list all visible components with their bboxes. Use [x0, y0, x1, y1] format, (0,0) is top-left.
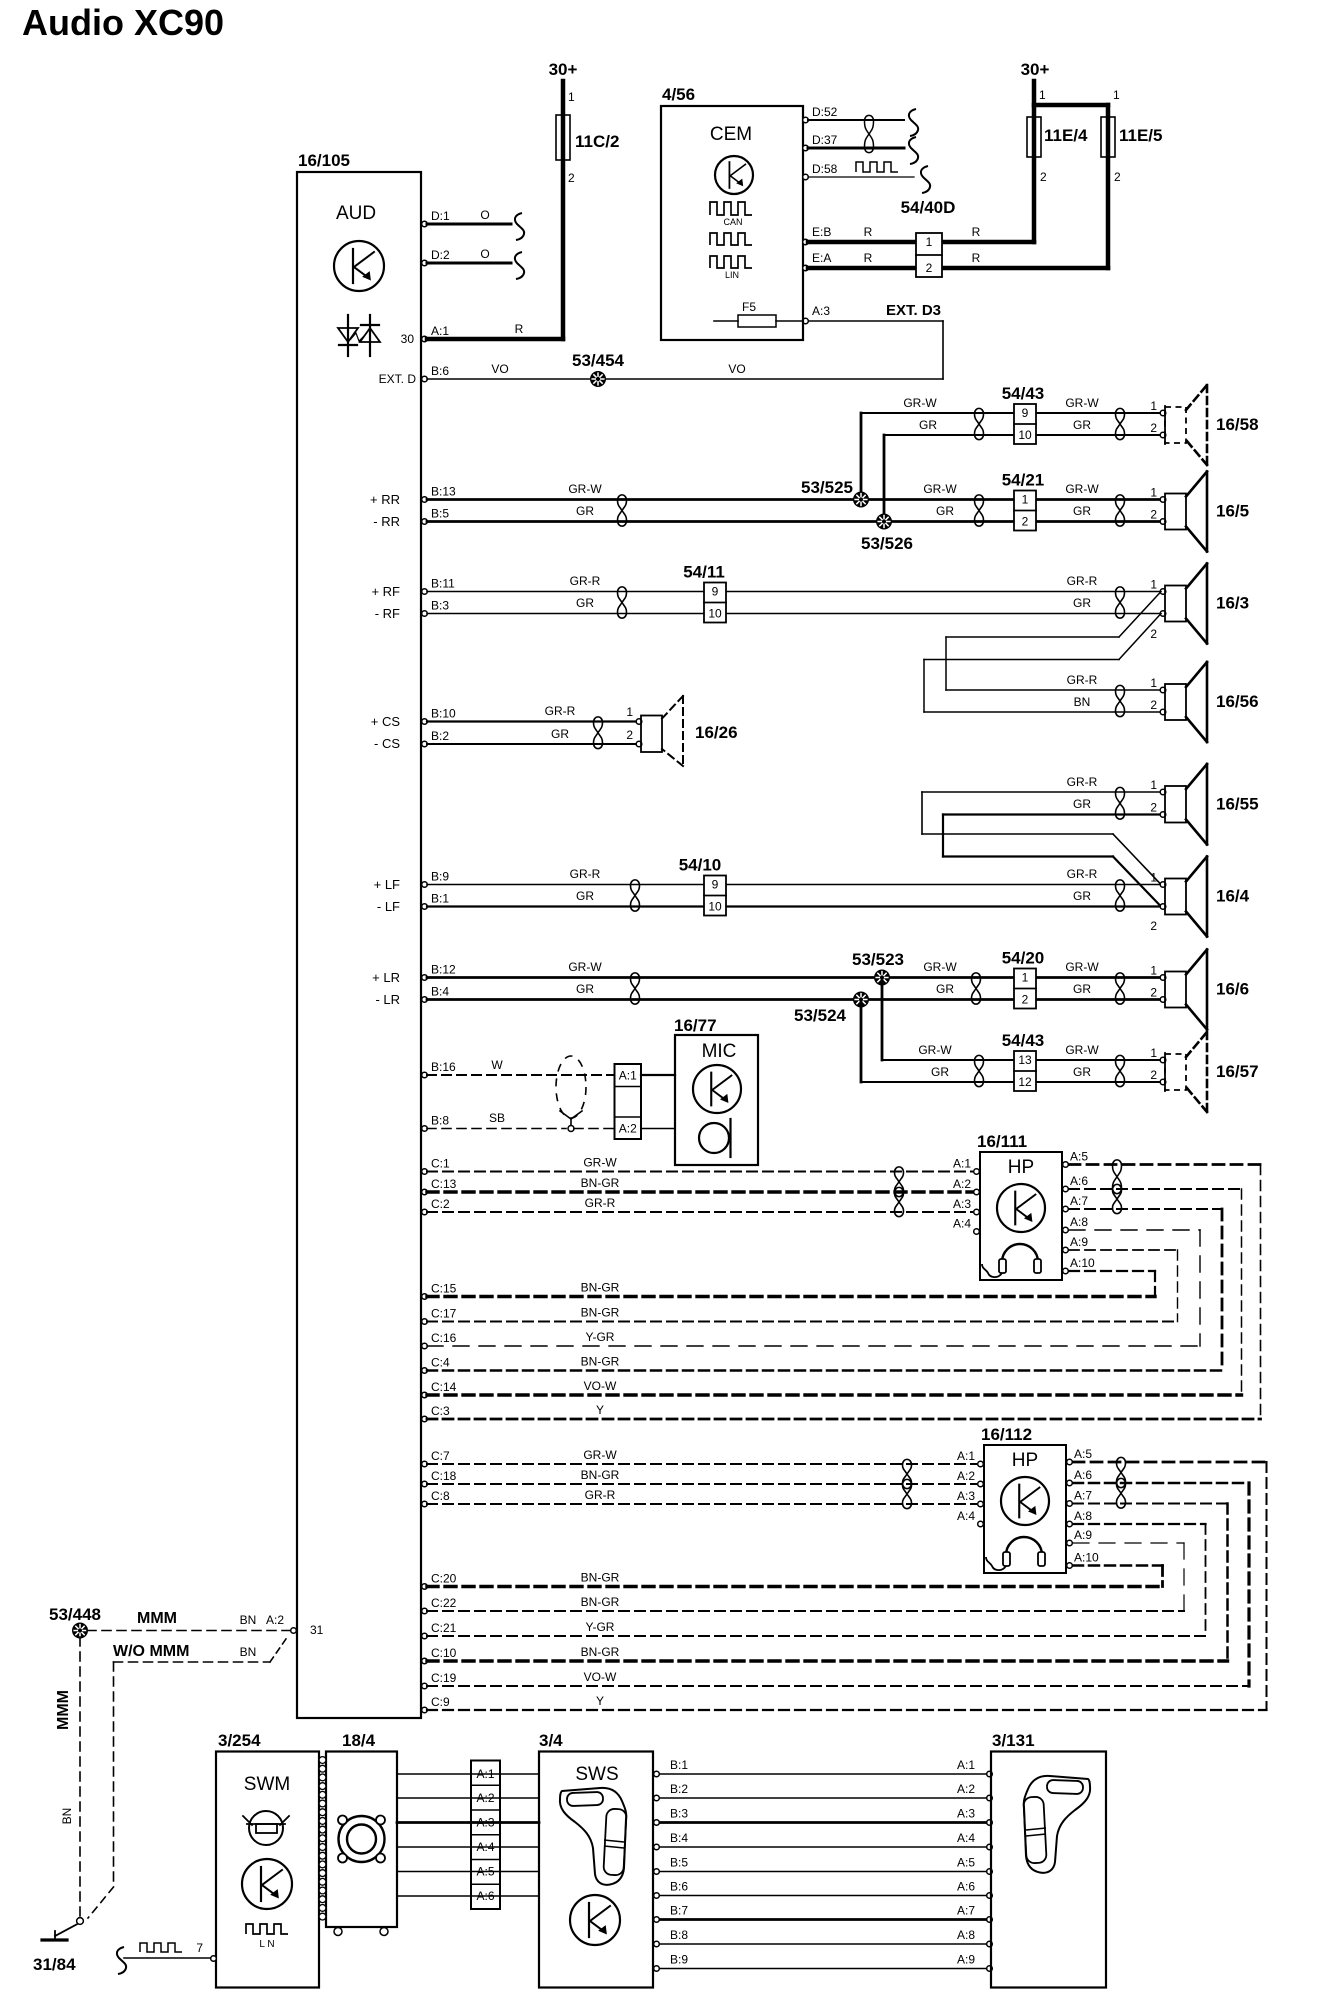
- svg-text:D:1: D:1: [431, 209, 450, 223]
- svg-text:GR-W: GR-W: [583, 1156, 617, 1170]
- svg-text:9: 9: [712, 878, 719, 892]
- svg-text:BN: BN: [60, 1808, 74, 1825]
- svg-text:- LF: - LF: [377, 899, 400, 914]
- svg-text:1: 1: [1022, 493, 1029, 507]
- svg-text:16/57: 16/57: [1216, 1062, 1259, 1081]
- svg-text:1: 1: [1150, 399, 1157, 413]
- svg-text:GR-R: GR-R: [1067, 775, 1098, 789]
- svg-text:B:8: B:8: [670, 1928, 688, 1942]
- svg-text:16/55: 16/55: [1216, 794, 1259, 813]
- svg-text:A:10: A:10: [1070, 1256, 1095, 1270]
- svg-text:B:7: B:7: [670, 1904, 688, 1918]
- svg-text:BN-GR: BN-GR: [581, 1281, 620, 1295]
- svg-text:16/58: 16/58: [1216, 415, 1259, 434]
- svg-text:54/20: 54/20: [1002, 949, 1045, 968]
- svg-text:B:3: B:3: [670, 1807, 688, 1821]
- svg-text:GR: GR: [1073, 982, 1091, 996]
- svg-text:GR: GR: [919, 418, 937, 432]
- svg-text:- RF: - RF: [375, 606, 400, 621]
- svg-text:10: 10: [1018, 428, 1032, 442]
- svg-text:13: 13: [1018, 1053, 1032, 1067]
- svg-text:31: 31: [310, 1623, 324, 1637]
- svg-text:B:3: B:3: [431, 599, 449, 613]
- svg-text:18/4: 18/4: [342, 1731, 376, 1750]
- svg-text:A:4: A:4: [953, 1217, 971, 1231]
- svg-text:C:22: C:22: [431, 1596, 457, 1610]
- svg-text:EXT. D: EXT. D: [379, 372, 417, 386]
- svg-text:16/6: 16/6: [1216, 980, 1249, 999]
- svg-text:B:11: B:11: [431, 577, 455, 591]
- svg-text:R: R: [515, 322, 524, 336]
- svg-text:3/4: 3/4: [539, 1731, 563, 1750]
- svg-text:R: R: [972, 251, 981, 265]
- svg-text:7: 7: [196, 1941, 203, 1955]
- svg-text:2: 2: [1150, 1068, 1157, 1082]
- svg-text:16/3: 16/3: [1216, 594, 1249, 613]
- svg-text:GR: GR: [1073, 797, 1091, 811]
- svg-text:Y: Y: [596, 1403, 604, 1417]
- svg-text:GR-W: GR-W: [568, 960, 602, 974]
- svg-text:12: 12: [1018, 1075, 1032, 1089]
- svg-text:VO-W: VO-W: [584, 1670, 617, 1684]
- svg-text:C:17: C:17: [431, 1307, 457, 1321]
- svg-text:10: 10: [708, 900, 722, 914]
- svg-text:A:8: A:8: [1070, 1215, 1088, 1229]
- svg-text:+ RF: + RF: [371, 584, 400, 599]
- svg-text:D:58: D:58: [812, 162, 838, 176]
- svg-text:54/11: 54/11: [683, 563, 725, 582]
- svg-text:AUD: AUD: [336, 203, 376, 224]
- svg-text:1: 1: [1150, 964, 1157, 978]
- svg-text:GR-R: GR-R: [570, 867, 601, 881]
- svg-text:A:3: A:3: [957, 1489, 975, 1503]
- svg-text:11C/2: 11C/2: [575, 132, 619, 151]
- svg-text:B:9: B:9: [431, 870, 449, 884]
- svg-text:GR: GR: [936, 504, 954, 518]
- svg-text:LIN: LIN: [725, 270, 739, 280]
- svg-text:10: 10: [708, 607, 722, 621]
- svg-text:C:13: C:13: [431, 1177, 457, 1191]
- svg-text:1: 1: [1022, 971, 1029, 985]
- svg-text:A:10: A:10: [1074, 1551, 1099, 1565]
- svg-text:GR: GR: [931, 1065, 949, 1079]
- svg-text:VO-W: VO-W: [584, 1379, 617, 1393]
- svg-text:1: 1: [1150, 1046, 1157, 1060]
- svg-text:BN-GR: BN-GR: [581, 1306, 620, 1320]
- svg-text:BN-GR: BN-GR: [581, 1176, 620, 1190]
- svg-text:16/111: 16/111: [977, 1132, 1027, 1151]
- svg-text:SB: SB: [489, 1111, 505, 1125]
- svg-text:D:52: D:52: [812, 105, 838, 119]
- svg-text:A:6: A:6: [1074, 1468, 1092, 1482]
- svg-text:L N: L N: [259, 1939, 274, 1950]
- svg-text:54/43: 54/43: [1002, 384, 1045, 403]
- svg-text:B:4: B:4: [431, 985, 449, 999]
- svg-text:A:2: A:2: [266, 1613, 284, 1627]
- svg-text:A:8: A:8: [1074, 1509, 1092, 1523]
- svg-text:E:A: E:A: [812, 251, 831, 265]
- svg-text:C:8: C:8: [431, 1489, 450, 1503]
- svg-text:16/26: 16/26: [695, 723, 738, 742]
- svg-text:C:4: C:4: [431, 1356, 450, 1370]
- svg-text:2: 2: [568, 171, 575, 185]
- svg-text:30: 30: [401, 332, 415, 346]
- svg-text:4/56: 4/56: [662, 85, 695, 104]
- svg-text:Y: Y: [596, 1694, 604, 1708]
- svg-text:31/84: 31/84: [33, 1955, 76, 1974]
- svg-text:A:1: A:1: [619, 1069, 637, 1083]
- svg-text:B:2: B:2: [431, 729, 449, 743]
- svg-text:+ LF: + LF: [374, 877, 400, 892]
- svg-text:BN-GR: BN-GR: [581, 1468, 620, 1482]
- svg-text:GR: GR: [1073, 889, 1091, 903]
- svg-text:B:13: B:13: [431, 485, 456, 499]
- svg-text:1: 1: [568, 90, 575, 104]
- svg-text:2: 2: [626, 728, 633, 742]
- svg-text:A:2: A:2: [953, 1177, 971, 1191]
- svg-text:GR-R: GR-R: [545, 704, 576, 718]
- svg-text:BN: BN: [240, 1613, 257, 1627]
- svg-text:GR-W: GR-W: [923, 960, 957, 974]
- svg-text:A:1: A:1: [953, 1157, 971, 1171]
- svg-text:A:5: A:5: [1070, 1150, 1088, 1164]
- svg-text:BN: BN: [1074, 695, 1091, 709]
- svg-text:BN-GR: BN-GR: [581, 1595, 620, 1609]
- svg-text:53/526: 53/526: [861, 534, 913, 553]
- svg-text:2: 2: [1150, 919, 1157, 933]
- svg-text:9: 9: [712, 585, 719, 599]
- svg-text:CAN: CAN: [723, 217, 742, 227]
- svg-text:+ LR: + LR: [372, 970, 400, 985]
- svg-text:A:9: A:9: [1074, 1528, 1092, 1542]
- svg-text:C:10: C:10: [431, 1646, 457, 1660]
- svg-text:B:2: B:2: [670, 1782, 688, 1796]
- svg-text:Audio XC90: Audio XC90: [22, 2, 224, 43]
- svg-text:16/77: 16/77: [674, 1016, 717, 1035]
- svg-text:54/21: 54/21: [1002, 471, 1045, 490]
- svg-text:GR: GR: [576, 504, 594, 518]
- svg-text:C:9: C:9: [431, 1695, 450, 1709]
- svg-text:GR-W: GR-W: [923, 482, 957, 496]
- svg-text:MMM: MMM: [55, 1690, 72, 1730]
- svg-text:- CS: - CS: [374, 736, 400, 751]
- svg-text:53/448: 53/448: [49, 1605, 101, 1624]
- svg-text:BN-GR: BN-GR: [581, 1571, 620, 1585]
- svg-text:+ RR: + RR: [370, 492, 400, 507]
- svg-text:B:1: B:1: [431, 892, 449, 906]
- svg-text:+ CS: + CS: [371, 714, 401, 729]
- svg-text:HP: HP: [1008, 1157, 1034, 1178]
- svg-text:SWS: SWS: [575, 1764, 618, 1785]
- svg-text:2: 2: [1022, 515, 1029, 529]
- svg-text:A:9: A:9: [957, 1953, 975, 1967]
- svg-text:B:16: B:16: [431, 1060, 456, 1074]
- svg-text:O: O: [480, 208, 489, 222]
- svg-text:GR-R: GR-R: [570, 574, 601, 588]
- svg-text:2: 2: [1150, 801, 1157, 815]
- svg-text:GR: GR: [551, 727, 569, 741]
- svg-text:- RR: - RR: [373, 514, 400, 529]
- svg-text:GR-R: GR-R: [585, 1488, 616, 1502]
- svg-text:30+: 30+: [549, 60, 578, 79]
- svg-text:A:4: A:4: [957, 1509, 975, 1523]
- svg-text:54/10: 54/10: [679, 856, 722, 875]
- svg-text:B:1: B:1: [670, 1758, 688, 1772]
- svg-text:W/O MMM: W/O MMM: [113, 1643, 189, 1660]
- svg-text:BN-GR: BN-GR: [581, 1645, 620, 1659]
- svg-text:2: 2: [1040, 170, 1047, 184]
- svg-text:W: W: [491, 1058, 503, 1072]
- svg-text:GR-W: GR-W: [1065, 482, 1099, 496]
- svg-text:SWM: SWM: [244, 1774, 290, 1795]
- svg-text:C:19: C:19: [431, 1671, 457, 1685]
- svg-text:A:4: A:4: [957, 1831, 975, 1845]
- svg-text:3/254: 3/254: [218, 1731, 261, 1750]
- svg-text:GR: GR: [936, 982, 954, 996]
- svg-text:GR-W: GR-W: [918, 1043, 952, 1057]
- svg-text:A:3: A:3: [812, 304, 830, 318]
- svg-text:1: 1: [926, 235, 933, 249]
- svg-text:53/525: 53/525: [801, 478, 853, 497]
- svg-text:3/131: 3/131: [992, 1731, 1035, 1750]
- svg-text:C:21: C:21: [431, 1621, 457, 1635]
- svg-text:1: 1: [1150, 486, 1157, 500]
- svg-text:A:9: A:9: [1070, 1235, 1088, 1249]
- svg-text:1: 1: [1150, 778, 1157, 792]
- svg-text:B:8: B:8: [431, 1114, 449, 1128]
- svg-text:GR-W: GR-W: [1065, 1043, 1099, 1057]
- svg-text:B:12: B:12: [431, 963, 456, 977]
- svg-text:D:2: D:2: [431, 248, 450, 262]
- svg-text:16/105: 16/105: [298, 151, 350, 170]
- svg-text:VO: VO: [491, 362, 508, 376]
- svg-text:53/454: 53/454: [572, 351, 625, 370]
- svg-text:B:4: B:4: [670, 1831, 688, 1845]
- svg-text:GR: GR: [576, 889, 594, 903]
- svg-text:A:2: A:2: [957, 1782, 975, 1796]
- svg-text:CEM: CEM: [710, 124, 752, 145]
- svg-text:B:10: B:10: [431, 707, 456, 721]
- svg-text:A:5: A:5: [957, 1856, 975, 1870]
- svg-text:D:37: D:37: [812, 133, 838, 147]
- svg-text:A:2: A:2: [619, 1122, 637, 1136]
- svg-text:C:16: C:16: [431, 1331, 457, 1345]
- svg-text:F5: F5: [742, 300, 756, 314]
- svg-text:Y-GR: Y-GR: [586, 1620, 615, 1634]
- svg-text:MIC: MIC: [702, 1041, 737, 1062]
- svg-text:C:3: C:3: [431, 1404, 450, 1418]
- svg-text:A:2: A:2: [957, 1469, 975, 1483]
- svg-text:16/4: 16/4: [1216, 887, 1250, 906]
- svg-text:BN: BN: [240, 1645, 257, 1659]
- svg-text:GR-W: GR-W: [1065, 396, 1099, 410]
- svg-text:R: R: [972, 225, 981, 239]
- svg-text:GR-R: GR-R: [1067, 673, 1098, 687]
- svg-text:GR-W: GR-W: [1065, 960, 1099, 974]
- svg-text:E:B: E:B: [812, 225, 831, 239]
- svg-text:2: 2: [1150, 698, 1157, 712]
- svg-text:54/43: 54/43: [1002, 1031, 1045, 1050]
- svg-text:30+: 30+: [1021, 60, 1050, 79]
- svg-text:B:5: B:5: [670, 1856, 688, 1870]
- svg-text:A:1: A:1: [957, 1449, 975, 1463]
- svg-text:O: O: [480, 247, 489, 261]
- svg-text:11E/5: 11E/5: [1119, 126, 1163, 145]
- svg-text:A:1: A:1: [431, 324, 449, 338]
- svg-text:2: 2: [1150, 986, 1157, 1000]
- svg-text:53/524: 53/524: [794, 1006, 847, 1025]
- svg-text:1: 1: [1150, 871, 1157, 885]
- svg-text:EXT. D3: EXT. D3: [886, 302, 941, 319]
- svg-text:11E/4: 11E/4: [1044, 126, 1088, 145]
- svg-text:A:7: A:7: [957, 1904, 975, 1918]
- svg-text:C:14: C:14: [431, 1380, 457, 1394]
- svg-text:A:3: A:3: [957, 1807, 975, 1821]
- svg-text:1: 1: [1150, 578, 1157, 592]
- svg-text:A:3: A:3: [953, 1197, 971, 1211]
- svg-text:1: 1: [1039, 88, 1046, 102]
- svg-text:GR-W: GR-W: [568, 482, 602, 496]
- svg-text:2: 2: [1114, 170, 1121, 184]
- svg-text:Y-GR: Y-GR: [586, 1330, 615, 1344]
- svg-text:GR: GR: [1073, 1065, 1091, 1079]
- svg-text:R: R: [864, 251, 873, 265]
- svg-text:GR-R: GR-R: [585, 1196, 616, 1210]
- svg-text:1: 1: [626, 705, 633, 719]
- svg-text:1: 1: [1150, 676, 1157, 690]
- svg-text:16/56: 16/56: [1216, 692, 1259, 711]
- svg-text:C:15: C:15: [431, 1282, 457, 1296]
- svg-text:R: R: [864, 225, 873, 239]
- svg-text:A:8: A:8: [957, 1928, 975, 1942]
- svg-text:B:6: B:6: [670, 1880, 688, 1894]
- svg-text:GR: GR: [1073, 596, 1091, 610]
- svg-text:GR: GR: [1073, 418, 1091, 432]
- svg-text:GR-W: GR-W: [583, 1448, 617, 1462]
- svg-text:GR: GR: [576, 596, 594, 610]
- svg-text:A:5: A:5: [1074, 1447, 1092, 1461]
- svg-text:C:2: C:2: [431, 1197, 450, 1211]
- svg-text:GR: GR: [1073, 504, 1091, 518]
- svg-text:C:18: C:18: [431, 1469, 457, 1483]
- svg-text:53/523: 53/523: [852, 950, 904, 969]
- svg-text:B:5: B:5: [431, 507, 449, 521]
- svg-text:9: 9: [1022, 406, 1029, 420]
- svg-text:2: 2: [926, 261, 933, 275]
- svg-text:C:1: C:1: [431, 1157, 450, 1171]
- svg-text:C:20: C:20: [431, 1572, 457, 1586]
- svg-text:- LR: - LR: [375, 992, 400, 1007]
- svg-text:A:7: A:7: [1074, 1489, 1092, 1503]
- svg-text:C:7: C:7: [431, 1449, 450, 1463]
- svg-text:A:6: A:6: [957, 1880, 975, 1894]
- svg-text:54/40D: 54/40D: [901, 198, 956, 217]
- svg-text:GR: GR: [576, 982, 594, 996]
- svg-text:16/5: 16/5: [1216, 502, 1249, 521]
- svg-text:1: 1: [1113, 88, 1120, 102]
- svg-text:GR-R: GR-R: [1067, 574, 1098, 588]
- svg-text:VO: VO: [728, 362, 745, 376]
- svg-text:2: 2: [1150, 421, 1157, 435]
- svg-text:GR-R: GR-R: [1067, 867, 1098, 881]
- svg-text:A:7: A:7: [1070, 1194, 1088, 1208]
- svg-text:2: 2: [1150, 627, 1157, 641]
- svg-text:GR-W: GR-W: [903, 396, 937, 410]
- svg-text:B:6: B:6: [431, 364, 449, 378]
- svg-text:16/112: 16/112: [981, 1425, 1032, 1444]
- svg-text:A:6: A:6: [1070, 1174, 1088, 1188]
- svg-text:A:1: A:1: [957, 1758, 975, 1772]
- svg-text:2: 2: [1022, 993, 1029, 1007]
- svg-text:HP: HP: [1012, 1450, 1038, 1471]
- svg-text:2: 2: [1150, 508, 1157, 522]
- svg-text:MMM: MMM: [137, 1610, 177, 1627]
- svg-text:BN-GR: BN-GR: [581, 1355, 620, 1369]
- svg-text:B:9: B:9: [670, 1953, 688, 1967]
